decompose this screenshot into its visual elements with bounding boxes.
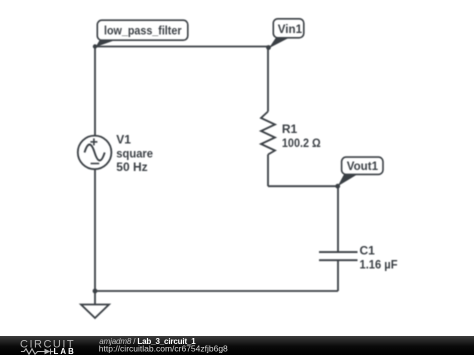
- wire Vin node down to resistor top: [267, 47, 269, 112]
- svg-text:LAB: LAB: [54, 347, 76, 355]
- wire left vertical to V1 top: [94, 47, 96, 136]
- C1 value labels: [360, 244, 398, 272]
- flag Vout1: [338, 157, 383, 186]
- wire bottom horizontal: [95, 290, 338, 292]
- capacitor C1: [319, 252, 358, 260]
- node ground junction: [93, 289, 98, 294]
- resistor R1: [261, 112, 275, 155]
- svg-text:http://circuitlab.com/cr6754zf: http://circuitlab.com/cr6754zfjb6g8: [99, 343, 228, 353]
- footer bar: [0, 336, 474, 355]
- node Vin1 anchor: [266, 45, 271, 50]
- V1 value labels: [116, 133, 153, 174]
- wire Vout node to resistor bottom: [268, 185, 338, 187]
- wire capacitor bottom stub: [337, 260, 339, 291]
- logo waveform: [21, 349, 54, 355]
- node Vout1 anchor: [335, 184, 340, 189]
- flag low_pass_filter: [96, 20, 188, 47]
- wire V1 bottom to ground junction: [94, 169, 96, 291]
- wire capacitor top stub to Vout node: [337, 186, 339, 252]
- logo diode arrow: [45, 349, 51, 355]
- ground: [81, 305, 109, 319]
- wire junction to ground symbol: [94, 291, 96, 305]
- R1 value labels: [282, 122, 321, 150]
- flag Vin1: [269, 19, 304, 48]
- wire top horizontal: [95, 46, 268, 48]
- voltage source V1: [78, 136, 112, 170]
- node low_pass_filter anchor: [93, 44, 97, 48]
- wire resistor bottom stub: [267, 155, 269, 187]
